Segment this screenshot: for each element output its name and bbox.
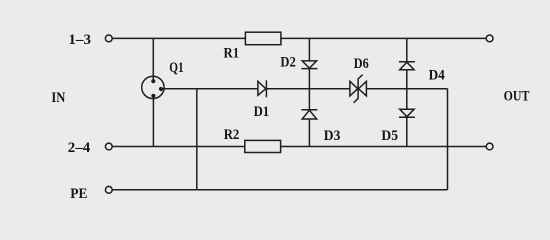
svg-text:D1: D1 <box>254 104 270 120</box>
Q1 right electrode dot <box>159 87 163 91</box>
svg-text:Q1: Q1 <box>169 60 183 76</box>
TVS D6 center bar <box>354 75 363 103</box>
diode D3 triangle <box>302 110 316 119</box>
svg-text:R2: R2 <box>224 127 240 143</box>
svg-text:D3: D3 <box>324 128 341 144</box>
wire from D5 down to 2-4 line <box>406 117 408 146</box>
diode D2 triangle <box>302 61 316 68</box>
terminal OUT 3 <box>486 35 493 42</box>
wire from top line down to Q1 top electrode <box>152 38 154 81</box>
wire 2-4 line right segment <box>281 146 487 148</box>
diode D4 cathode bar <box>399 61 415 63</box>
resistor R1 body <box>245 32 281 45</box>
diode D5 triangle <box>400 109 414 117</box>
wire middle line from D6 to right corner <box>366 88 447 90</box>
wire right vertical from middle line down to PE line <box>447 89 449 190</box>
diode D2 cathode bar <box>301 68 317 70</box>
svg-text:1–3: 1–3 <box>68 32 91 48</box>
wire from Q1 bottom electrode down to 2-4 line <box>152 96 154 147</box>
terminal IN 2-4 <box>105 143 112 150</box>
TVS D6 left triangle <box>350 81 358 96</box>
svg-text:D5: D5 <box>381 128 398 144</box>
diode D5 cathode bar <box>399 116 415 118</box>
wire from top line down to diode D2 <box>308 38 310 61</box>
wire from top line down to diode D4 <box>406 38 408 61</box>
svg-text:R1: R1 <box>224 46 240 62</box>
wire middle line from D1 to D6 <box>266 88 350 90</box>
wire 2-4 line left segment <box>112 146 245 148</box>
svg-text:D4: D4 <box>429 67 446 83</box>
Q1 bottom electrode dot <box>151 94 155 98</box>
resistor R2 body <box>245 140 281 152</box>
wire middle line from Q1 right electrode to diode D1 <box>161 88 258 90</box>
svg-text:OUT: OUT <box>504 89 530 105</box>
wire from D3 down to 2-4 line <box>308 119 310 147</box>
svg-text:2–4: 2–4 <box>68 140 91 156</box>
wire from middle line down to PE line <box>196 89 198 190</box>
terminal OUT 4 <box>486 143 493 150</box>
diode D4 triangle <box>400 62 414 69</box>
TVS D6 right triangle <box>359 81 367 96</box>
gas discharge tube Q1 envelope <box>142 76 164 98</box>
wire from D4 through middle line to D5 <box>406 70 408 110</box>
wire top line left segment <box>112 37 245 39</box>
diode D1 cathode bar <box>265 80 267 97</box>
wire top line right segment <box>281 37 486 39</box>
wire from D2 through middle line to D3 <box>308 69 310 110</box>
diode D3 cathode bar <box>301 109 317 111</box>
diode D1 triangle <box>258 81 266 95</box>
Q1 top electrode dot <box>151 79 155 83</box>
svg-text:D2: D2 <box>280 55 295 71</box>
svg-text:PE: PE <box>70 186 87 202</box>
terminal IN 1-3 <box>105 35 112 42</box>
wire PE line <box>112 189 447 191</box>
svg-text:IN: IN <box>51 90 65 106</box>
terminal PE <box>105 186 112 193</box>
svg-text:D6: D6 <box>354 56 369 72</box>
